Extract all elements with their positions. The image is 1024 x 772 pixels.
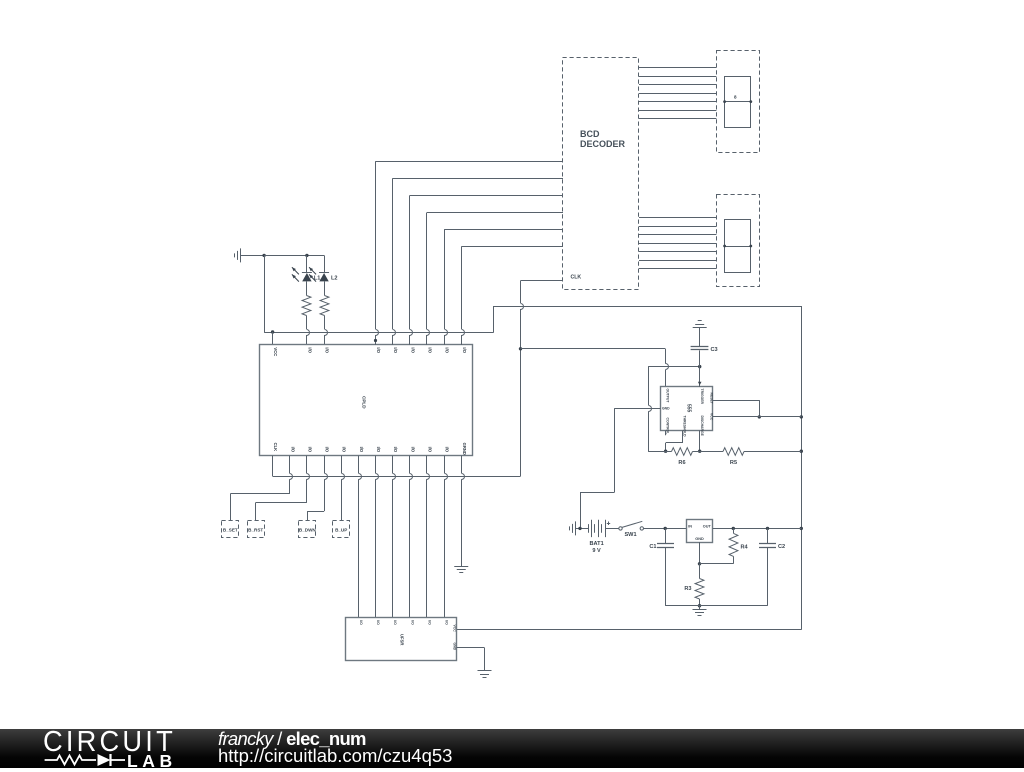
- label B_DWN: [299, 527, 317, 532]
- label C1: [649, 544, 656, 550]
- wire CLK vertical: [519, 281, 524, 477]
- button B_RST (dashed module): [248, 521, 265, 538]
- ground G3 (battery negative): [570, 521, 576, 535]
- wire stub to CPLD VCC pin: [272, 332, 274, 345]
- wire CPLD I/O to BCD decoder input 3: [410, 195, 564, 345]
- wire rail from ground to junction: [240, 255, 264, 257]
- wire 555 THRESHOLD to R6 node: [664, 431, 683, 453]
- wire 555 VCC to loop: [713, 416, 802, 418]
- wire VCC jog up: [493, 306, 495, 332]
- capacitor C1: [657, 528, 674, 605]
- resistor R1 (L1 series): [302, 282, 311, 345]
- resistor R5: [700, 448, 802, 456]
- seven-segment digit DS2: [723, 220, 752, 273]
- ground G1 (top-left rail): [235, 248, 241, 262]
- label BCD DECODER: [580, 129, 626, 149]
- label 8 (DS1 digit): [734, 95, 737, 100]
- wire CPLD I/O to BCD decoder input 4: [427, 213, 564, 345]
- wire regulator GND down: [698, 542, 701, 566]
- wire VCC loop right edge: [800, 306, 803, 630]
- wire BCD output a7 to display DS1: [639, 118, 716, 120]
- wire filter ground rail: [665, 605, 767, 607]
- wire U2 GND: [457, 648, 485, 671]
- label B_UP: [335, 527, 347, 532]
- label R3: [684, 586, 691, 592]
- wire BCD output b4 to display DS2: [639, 243, 716, 245]
- ic U3 BCD decoder (dashed module): [563, 58, 639, 290]
- wire CPLD to U2 pin 4: [410, 456, 413, 618]
- url: [218, 745, 452, 767]
- resistor R2 (L2 series): [320, 282, 329, 345]
- wire 555 RESET to VCC: [713, 400, 762, 418]
- wire CPLD to U2 pin 5: [427, 456, 430, 618]
- logo LAB: [127, 751, 177, 772]
- wire BCD CLK pin: [521, 280, 564, 282]
- wire battery negative: [576, 527, 588, 530]
- wire VCC top loop horizontal: [494, 306, 802, 308]
- node junction top-left: [262, 254, 265, 257]
- ic U4 555 timer body: [661, 387, 713, 431]
- label R4: [741, 545, 749, 551]
- seven-segment digit DS1: [723, 77, 752, 128]
- wire CPLD to U2 pin 1: [359, 456, 362, 618]
- wire BCD output a5 to display DS1: [639, 101, 716, 103]
- wire CPLD to B_RST: [256, 456, 310, 521]
- label 555: [686, 404, 692, 413]
- display DS1 (dashed module): [717, 51, 760, 153]
- pin labels U2 VCC GND: [453, 625, 457, 651]
- label B_RST: [248, 527, 263, 532]
- wire 555 GND to supply return: [580, 408, 661, 528]
- wire CPLD to U2 pin 2: [376, 456, 379, 618]
- pin label GRND: [462, 443, 467, 455]
- wire 555 DISCHARGE down: [698, 431, 701, 453]
- label L1: [314, 276, 321, 282]
- label B_SET: [223, 527, 238, 532]
- wire switch to regulator IN: [644, 527, 687, 530]
- wire BCD output b6 to display DS2: [639, 260, 716, 262]
- battery BAT1 9V: [589, 520, 611, 537]
- label SW1: [624, 532, 636, 538]
- wire BCD output b2 to display DS2: [639, 226, 716, 228]
- label C2: [778, 544, 785, 550]
- wire BCD output a4 to display DS1: [639, 93, 716, 95]
- wire VCC rail horizontal: [264, 330, 494, 333]
- pin labels 555: [662, 389, 714, 438]
- label R5: [730, 460, 737, 466]
- wire BCD output a3 to display DS1: [639, 84, 716, 86]
- wire BCD output a6 to display DS1: [639, 110, 716, 112]
- pin label VCC: [273, 347, 278, 356]
- wire CLK branch to 555 output: [521, 349, 669, 388]
- wire CPLD to B_SET: [230, 456, 292, 521]
- wire CPLD I/O to BCD decoder input 6: [461, 247, 563, 345]
- pin label CLK (BCD): [571, 275, 582, 281]
- wire rail to L1 and L2: [264, 254, 324, 257]
- ground G2 (above C3): [693, 321, 707, 348]
- label L2: [331, 276, 338, 282]
- capacitor C2: [759, 528, 776, 605]
- logo CIRCUIT: [43, 726, 176, 759]
- wire CPLD I/O to BCD decoder input 2: [393, 178, 564, 345]
- resistor R6: [648, 448, 700, 456]
- pin labels I/O top: [307, 347, 466, 353]
- byline francky / elec_num: [218, 728, 366, 750]
- wire CPLD to B_DWN: [307, 456, 327, 521]
- ic U1 CPLD body: [260, 345, 473, 456]
- button B_SET (dashed module): [222, 521, 239, 538]
- wire CPLD to U2 pin 3: [393, 456, 396, 618]
- wire VCC loop bottom to U2 VCC: [457, 629, 802, 631]
- capacitor C3: [691, 347, 709, 367]
- label R6: [678, 460, 685, 466]
- button B_DWN (dashed module): [299, 521, 316, 538]
- wire CPLD GRND down: [462, 456, 465, 567]
- wire CPLD I/O to BCD decoder input 5: [444, 230, 563, 345]
- label CPLD: [362, 396, 367, 409]
- wire left branch down to R6: [649, 367, 652, 452]
- wire battery to switch: [605, 528, 619, 530]
- wire regulator OUT rail: [713, 527, 802, 530]
- wire CPLD I/O to BCD decoder input 1: [374, 161, 563, 345]
- wire CPLD to U2 pin 6: [445, 456, 448, 618]
- resistor R4: [700, 528, 738, 563]
- ic U2 body: [346, 618, 457, 661]
- wire BCD output b3 to display DS2: [639, 234, 716, 236]
- wire trigger node horizontal: [648, 365, 701, 368]
- wire CPLD to B_UP: [342, 456, 345, 521]
- button B_UP (dashed module): [333, 521, 350, 538]
- wire trigger to 555 TRIGGER pin: [698, 367, 702, 387]
- wire BCD output a2 to display DS1: [639, 76, 716, 78]
- label BAT1 9V: [589, 541, 603, 554]
- wire CLK bottom horizontal to CPLD CLK: [273, 456, 521, 477]
- wire junction down to VCC rail: [264, 255, 266, 332]
- pin label CLK: [273, 443, 278, 452]
- pin labels I/O bottom: [290, 447, 449, 453]
- resistor R3: [695, 564, 704, 608]
- display DS2 (dashed module): [717, 195, 760, 287]
- ground G5 (CPLD): [454, 567, 468, 573]
- label C3: [711, 347, 718, 353]
- ground G4 (regulator): [693, 606, 707, 616]
- wire 555 CONTROL stub: [665, 431, 667, 436]
- regulator U5 body: [687, 520, 713, 543]
- labels regulator IN OUT GND: [688, 525, 711, 542]
- footer bar: [0, 729, 1024, 768]
- label U2 UFSR: [399, 634, 404, 645]
- ground G6 (U2): [478, 671, 492, 678]
- wire BCD output a1 to display DS1: [639, 67, 716, 69]
- led L1: [292, 255, 312, 281]
- wire BCD output b1 to display DS2: [639, 217, 716, 219]
- switch SW1: [619, 521, 644, 530]
- led L2: [309, 255, 329, 281]
- wire BCD output b5 to display DS2: [639, 251, 716, 253]
- wire BCD output b7 to display DS2: [639, 268, 716, 270]
- pin labels U2 I/O: [359, 620, 449, 625]
